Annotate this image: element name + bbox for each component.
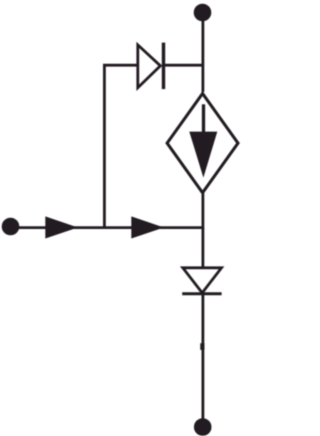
wire mid horizontal [11,226,203,229]
wire diode D2 to bottom terminal [201,294,204,423]
diode D2 cathode bar [182,292,221,295]
terminal node bottom [195,420,210,435]
current arrow 1 [45,216,78,238]
diode D1 triangle [138,45,161,88]
wire diamond bottom to mid junction [201,193,204,229]
diode D1 cathode bar [162,43,165,90]
wire corner left branch to D1 anode [104,65,137,227]
wire top terminal to diamond [201,17,204,92]
terminal node left [3,219,18,234]
arrow stem inside diamond [202,104,205,140]
current source diamond [167,94,238,193]
wire cathode of D1 to top rail [164,64,204,67]
wire mid junction to diode D2 [201,228,204,267]
arrow head inside diamond [189,132,217,178]
current arrow 2 [131,216,164,238]
diode D2 triangle [183,268,222,293]
terminal node top [195,5,210,20]
wire overlap joint [200,343,204,350]
